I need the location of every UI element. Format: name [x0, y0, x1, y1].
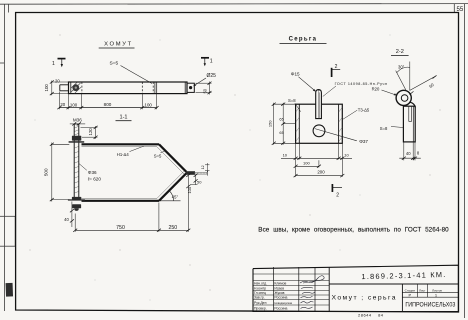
svg-text:Φ37: Φ37 [359, 139, 368, 144]
svg-text:H1-Δ4: H1-Δ4 [117, 152, 130, 157]
svg-text:Провер.: Провер. [254, 306, 267, 310]
svg-text:2: 2 [335, 64, 338, 70]
svg-text:Гл.спец: Гл.спец [254, 291, 266, 295]
svg-text:2-2: 2-2 [396, 49, 404, 55]
svg-text:ГОСТ 14098-85-Нн-Ручн: ГОСТ 14098-85-Нн-Ручн [335, 82, 388, 86]
svg-text:ГИПРОНИСЕЛЬХ03: ГИПРОНИСЕЛЬХ03 [405, 303, 456, 309]
svg-text:60: 60 [428, 82, 435, 89]
svg-text:Рук.Деп: Рук.Деп [254, 301, 267, 305]
svg-text:1: 1 [435, 293, 438, 298]
svg-text:S=8: S=8 [288, 98, 296, 103]
svg-text:Исаев: Исаев [274, 286, 284, 290]
svg-text:Все швы, кроме оговоренных, вы: Все швы, кроме оговоренных, выполнять по… [258, 227, 449, 234]
svg-text:65: 65 [279, 117, 284, 122]
svg-text:30°: 30° [398, 65, 405, 70]
svg-text:Р: Р [408, 293, 411, 298]
svg-text:40: 40 [64, 217, 69, 222]
svg-text:12: 12 [201, 165, 205, 169]
svg-text:10: 10 [283, 153, 288, 158]
svg-text:20: 20 [55, 79, 60, 84]
svg-text:100: 100 [145, 102, 153, 107]
svg-text:28644 84: 28644 84 [358, 313, 384, 318]
svg-text:Нач.отд: Нач.отд [254, 281, 266, 285]
svg-text:T3-Δ5: T3-Δ5 [358, 107, 370, 112]
svg-text:50: 50 [197, 179, 202, 184]
svg-text:65: 65 [279, 130, 284, 135]
svg-text:2: 2 [336, 193, 339, 199]
svg-text:800: 800 [104, 102, 112, 107]
svg-text:1: 1 [210, 59, 213, 65]
svg-text:100: 100 [187, 186, 192, 193]
svg-text:Зав.гр.: Зав.гр. [254, 296, 265, 300]
svg-text:Климов: Климов [274, 281, 286, 285]
svg-text:Φ15: Φ15 [291, 71, 300, 76]
svg-text:S=8: S=8 [380, 126, 388, 131]
svg-text:250: 250 [168, 225, 177, 231]
svg-text:8: 8 [417, 151, 420, 156]
svg-text:Н.контр: Н.контр [254, 286, 266, 290]
svg-text:Ø25: Ø25 [207, 73, 217, 79]
svg-text:100: 100 [70, 102, 78, 107]
svg-text:R20: R20 [372, 86, 380, 91]
svg-text:750: 750 [116, 225, 125, 231]
svg-text:100: 100 [303, 161, 310, 166]
svg-text:500: 500 [43, 168, 48, 176]
svg-text:Серьга: Серьга [289, 37, 318, 43]
svg-text:Листов: Листов [432, 288, 442, 292]
svg-text:M36: M36 [73, 117, 82, 122]
svg-text:1.869.2-3.1-41 КМ.: 1.869.2-3.1-41 КМ. [361, 270, 446, 281]
svg-text:45°: 45° [172, 194, 179, 199]
svg-text:Россина: Россина [274, 306, 287, 310]
svg-text:Новодворская: Новодворская [274, 301, 292, 305]
svg-text:Хомут ; серьга: Хомут ; серьга [332, 295, 397, 302]
svg-text:Лист: Лист [419, 288, 426, 292]
svg-text:20: 20 [60, 102, 65, 107]
svg-text:ℓ= 620: ℓ= 620 [88, 176, 102, 181]
svg-text:ХОМУТ: ХОМУТ [104, 41, 133, 47]
svg-text:150: 150 [267, 120, 272, 127]
svg-text:50: 50 [202, 88, 207, 93]
svg-text:Φ36: Φ36 [88, 170, 97, 175]
svg-text:Жуков: Жуков [274, 291, 284, 295]
svg-text:40: 40 [406, 151, 411, 156]
svg-text:S=5: S=5 [110, 60, 119, 66]
svg-text:200: 200 [317, 170, 325, 175]
svg-text:1: 1 [52, 61, 55, 67]
svg-text:10: 10 [344, 153, 349, 158]
svg-text:Россина: Россина [274, 296, 287, 300]
svg-text:100: 100 [44, 84, 49, 92]
svg-text:S=5: S=5 [154, 153, 162, 158]
svg-text:1-1: 1-1 [119, 115, 127, 121]
svg-text:120: 120 [88, 128, 93, 136]
